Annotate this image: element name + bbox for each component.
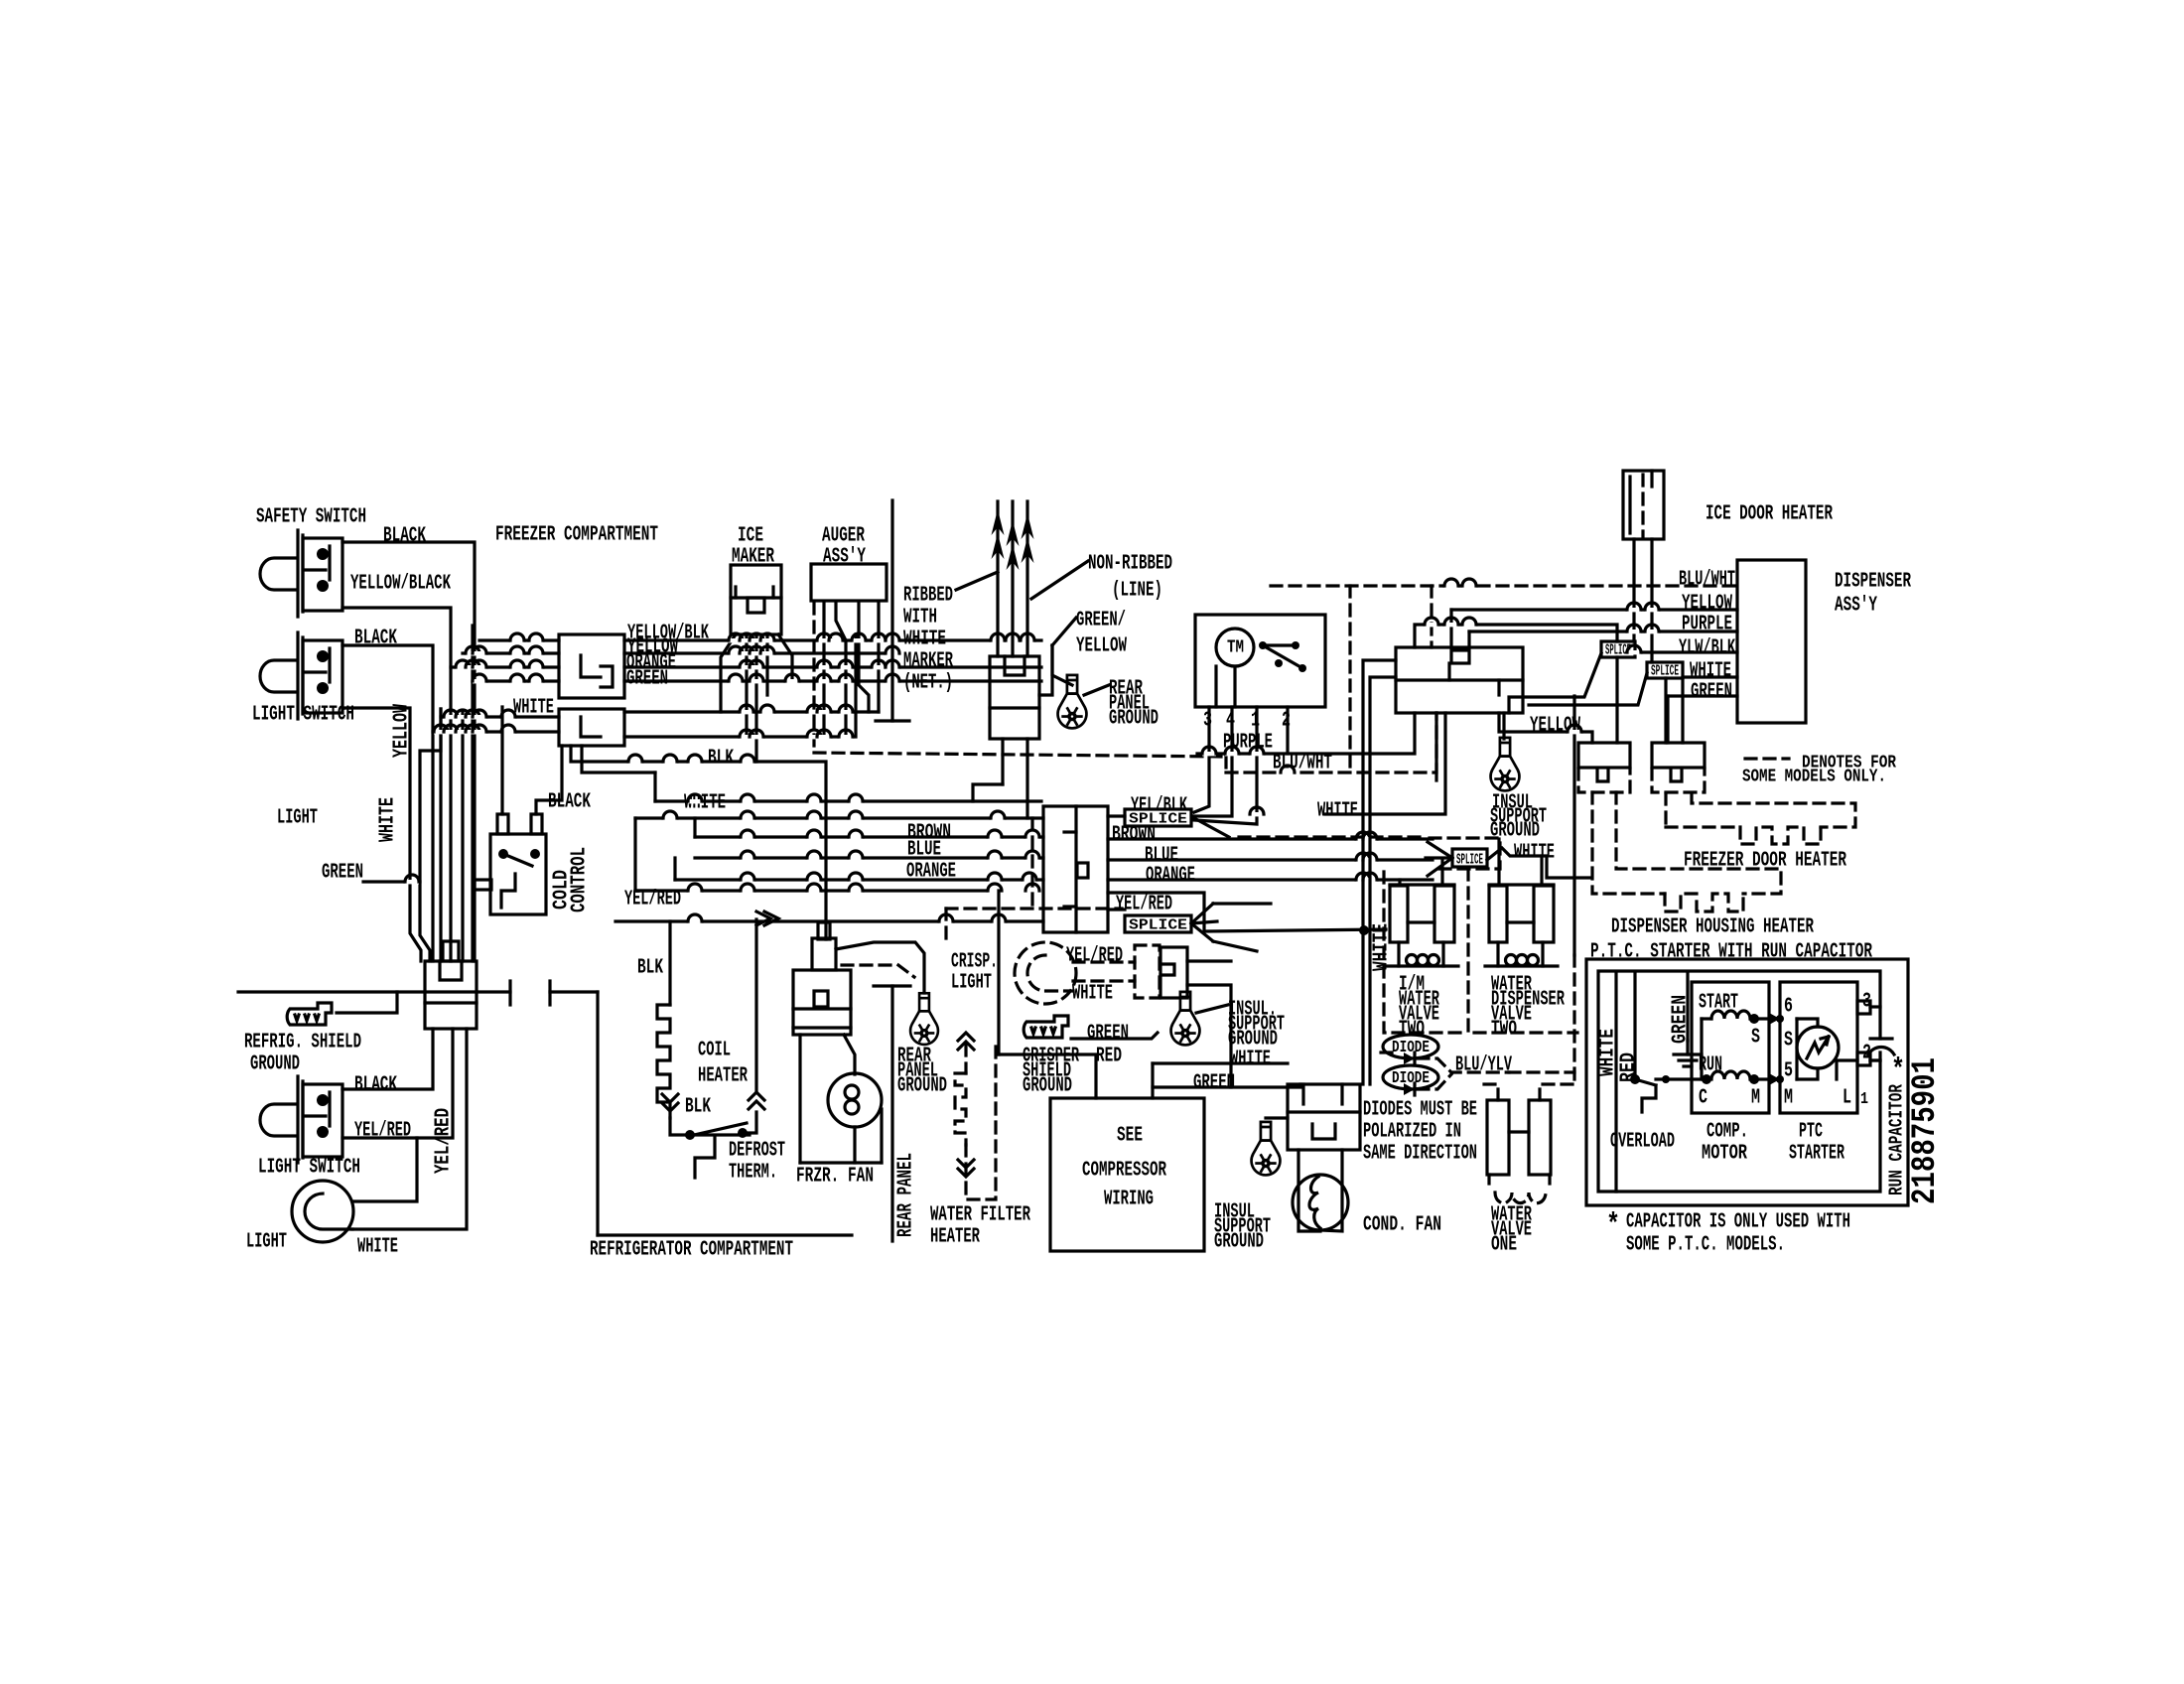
svg-text:BLACK: BLACK: [383, 525, 426, 548]
svg-text:GROUND: GROUND: [1214, 1231, 1264, 1254]
svg-text:WATER FILTER: WATER FILTER: [930, 1204, 1030, 1227]
svg-text:SAME DIRECTION: SAME DIRECTION: [1363, 1143, 1477, 1166]
ice maker connector: [731, 565, 781, 634]
svg-text:BLK: BLK: [708, 748, 734, 771]
svg-text:WHITE: WHITE: [1072, 983, 1113, 1006]
svg-text:GROUND: GROUND: [1023, 1075, 1072, 1098]
dashed bus: [1239, 835, 1426, 838]
crisper shield ground symbol: [1024, 1016, 1068, 1038]
svg-text:LIGHT SWITCH: LIGHT SWITCH: [258, 1157, 360, 1180]
timer wire: [1233, 666, 1236, 707]
insul support ground right: [1491, 738, 1520, 791]
svg-text:YEL/RED: YEL/RED: [1066, 945, 1123, 968]
svg-text:RUN CAPACITOR: RUN CAPACITOR: [1885, 1084, 1907, 1195]
S to ptc: [1754, 1017, 1780, 1020]
svg-text:BLK: BLK: [637, 957, 663, 980]
wire vertical: [471, 626, 474, 961]
svg-text:OVERLOAD: OVERLOAD: [1610, 1131, 1675, 1154]
diode out: [1418, 1058, 1509, 1072]
wire into connector: [473, 679, 559, 682]
svg-text:WITH: WITH: [903, 607, 937, 630]
svg-text:SAFETY SWITCH: SAFETY SWITCH: [256, 506, 366, 529]
arrow down: [662, 1094, 678, 1111]
wire up: [1467, 631, 1470, 647]
wire into splice 3: [1509, 653, 1601, 713]
frzr fan feed: [844, 1035, 855, 1074]
svg-text:MARKER: MARKER: [903, 650, 953, 673]
stub: [1108, 908, 1125, 911]
freezer door heater element: [1664, 793, 1667, 827]
wire black from light switch: [342, 645, 433, 961]
splice fan: [1191, 904, 1213, 923]
wire orange right: [1108, 878, 1433, 881]
cond fan wire: [1298, 1150, 1320, 1231]
auger wire: [822, 603, 825, 737]
svg-text:REFRIGERATOR COMPARTMENT: REFRIGERATOR COMPARTMENT: [590, 1239, 793, 1262]
svg-text:POLARIZED IN: POLARIZED IN: [1363, 1121, 1461, 1144]
frzr fan wire bottom: [853, 1127, 856, 1163]
wire into connector: [451, 665, 559, 668]
wire blk to coil heater: [668, 921, 671, 1005]
green/yellow wire: [1039, 645, 1052, 695]
wire yel/red long: [655, 889, 999, 892]
svg-text:1: 1: [1860, 1090, 1868, 1109]
dashed join: [1224, 757, 1227, 772]
svg-text:WIRING: WIRING: [1104, 1189, 1154, 1211]
freezer connector pair lower: [559, 709, 624, 746]
wire from light switch: [342, 708, 421, 961]
svg-text:TM: TM: [1227, 638, 1244, 658]
central multi-pin connector: [1043, 806, 1108, 932]
wire white to dispenser: [1683, 675, 1737, 678]
svg-text:LIGHT: LIGHT: [277, 807, 318, 830]
wire yel/blk stub: [1108, 814, 1125, 817]
svg-text:LIGHT: LIGHT: [246, 1231, 287, 1254]
frzr fan bottom bar: [800, 1161, 882, 1164]
auger assembly connector: [811, 564, 887, 601]
power supply lines: [996, 501, 999, 656]
svg-text:BLU/YLV: BLU/YLV: [1455, 1054, 1512, 1077]
svg-text:ICE: ICE: [738, 525, 763, 548]
splice 3: [1601, 641, 1635, 657]
svg-text:RIBBED: RIBBED: [903, 585, 953, 608]
wire to splice 3 top: [1415, 625, 1617, 647]
wire brown right: [1108, 837, 1433, 840]
ptc resistor: [1797, 1027, 1839, 1068]
lamp LIGHT: [292, 1181, 353, 1242]
timer pin 3 wire: [1194, 707, 1209, 812]
join: [635, 818, 655, 891]
wire green to dispenser: [1668, 694, 1737, 697]
wire vertical to I/M valve: [1398, 880, 1401, 885]
freezer door heater connector A: [1578, 743, 1630, 768]
svg-text:BLK: BLK: [685, 1096, 711, 1119]
cond fan wire: [1320, 1150, 1342, 1231]
wire: [1213, 902, 1271, 905]
M to ptc: [1754, 1077, 1780, 1080]
wire into lower connector: [433, 730, 559, 733]
ice door heater: [1623, 471, 1664, 539]
legend dashed sample: [1745, 757, 1789, 760]
svg-text:6: 6: [1784, 996, 1793, 1019]
svg-text:YELLOW: YELLOW: [1076, 635, 1127, 658]
wire blu/wht dashed: [1226, 713, 1436, 772]
svg-text:(NET.): (NET.): [903, 672, 953, 695]
wire ylw/blk to dispenser: [1635, 650, 1737, 653]
rear panel ground teardrop 2: [1058, 675, 1087, 729]
wire black to lower switch: [342, 1029, 433, 1089]
svg-text:(LINE): (LINE): [1112, 580, 1162, 603]
svg-text:STARTER: STARTER: [1789, 1143, 1844, 1166]
auger wire: [859, 603, 869, 712]
splice 5: [1452, 849, 1487, 867]
svg-text:COND. FAN: COND. FAN: [1363, 1214, 1441, 1237]
svg-text:GROUND: GROUND: [897, 1075, 947, 1098]
fan: [1428, 842, 1452, 858]
dashed auger wire some models: [812, 603, 815, 753]
svg-text:WHITE: WHITE: [1317, 800, 1358, 823]
svg-text:WHITE: WHITE: [357, 1236, 398, 1259]
diode 2: [1404, 1083, 1415, 1095]
dispenser assembly box: [1737, 560, 1806, 723]
svg-text:YEL/RED: YEL/RED: [1116, 894, 1172, 916]
timer pin 4 wire: [1194, 707, 1232, 816]
frzr fan connector: [793, 970, 851, 1035]
wire white from lamp: [352, 1029, 467, 1229]
svg-text:AUGER: AUGER: [822, 525, 865, 548]
wire to defrost therm: [670, 1118, 750, 1135]
splice: [1125, 809, 1191, 826]
wire white into lower connector: [441, 715, 559, 718]
svg-text:M: M: [1784, 1087, 1793, 1110]
svg-text:DIODE: DIODE: [1392, 1039, 1430, 1057]
svg-text:SPLICE: SPLICE: [1129, 917, 1187, 934]
cond fan coil: [1309, 1177, 1320, 1228]
wire yellow up: [420, 709, 441, 882]
red lead: [1633, 973, 1636, 1075]
water filter heater dashed resistor: [964, 1045, 967, 1073]
dashed enclosure valve two: [1468, 869, 1577, 1033]
ice maker wire: [778, 634, 792, 681]
svg-text:*: *: [1606, 1208, 1620, 1242]
defrost timer box TM: [1195, 615, 1325, 707]
join: [673, 858, 676, 880]
start winding coil: [1711, 1011, 1750, 1019]
rear panel line: [890, 986, 893, 1241]
svg-text:S: S: [1784, 1030, 1793, 1052]
rear panel ground teardrop: [910, 993, 938, 1045]
wire purple: [1197, 713, 1415, 754]
svg-text:SOME MODELS ONLY.: SOME MODELS ONLY.: [1742, 768, 1886, 787]
svg-text:WHITE: WHITE: [1230, 1049, 1271, 1071]
cold control: [490, 834, 546, 914]
wire yellow to dispenser: [1451, 608, 1737, 611]
svg-text:YELLOW: YELLOW: [391, 704, 414, 758]
divider tick: [874, 984, 910, 987]
ice maker wire: [754, 634, 757, 762]
wire vertical to connector: [439, 709, 442, 961]
wire join: [693, 818, 696, 837]
svg-text:M: M: [1751, 1087, 1760, 1110]
ground symbol green: [1674, 1041, 1702, 1066]
wire defrost right: [743, 1112, 756, 1133]
water valve one coil: [1495, 1193, 1546, 1203]
svg-text:DISPENSER: DISPENSER: [1835, 571, 1911, 594]
wire white vertical: [461, 712, 464, 961]
wire white: [1153, 1061, 1288, 1064]
pointer non-ribbed: [1031, 561, 1088, 599]
wire orange bus: [624, 665, 1041, 668]
I/M water valve two: [1390, 883, 1454, 886]
svg-text:LIGHT: LIGHT: [951, 972, 992, 995]
dashed vertical right: [1572, 955, 1575, 1084]
wire: [1187, 985, 1231, 1014]
wire vertical: [1540, 856, 1543, 885]
start-run common: [1700, 1019, 1703, 1079]
wire vertical: [1370, 677, 1396, 1084]
wire yellow/black from safety switch: [342, 608, 451, 961]
wire red: [999, 1054, 1096, 1098]
frzr fan wire right: [880, 1109, 883, 1163]
stub: [635, 889, 655, 892]
dispenser harness connector: [1396, 647, 1523, 713]
svg-text:GREEN: GREEN: [626, 668, 668, 691]
svg-text:THERM.: THERM.: [729, 1162, 777, 1185]
splice 2: [1125, 915, 1191, 932]
svg-text:TWO: TWO: [1491, 1019, 1517, 1042]
wire blk to frzr fan: [571, 746, 826, 939]
refrig shield ground symbol: [287, 1003, 332, 1025]
dashed white: [1073, 979, 1135, 982]
svg-text:DEFROST: DEFROST: [729, 1140, 785, 1163]
green/yellow wire: [1052, 645, 1072, 685]
wire white long lower: [615, 919, 1043, 922]
dashed vertical: [1430, 586, 1433, 647]
wire green bus: [624, 679, 1041, 682]
ice maker wire: [721, 634, 736, 712]
svg-text:CONTROL: CONTROL: [569, 847, 592, 912]
white wire right: [1487, 848, 1591, 878]
svg-text:RED: RED: [1096, 1046, 1122, 1068]
svg-text:ASS'Y: ASS'Y: [1835, 595, 1877, 618]
cold control wire up right: [536, 746, 562, 814]
svg-text:ONE: ONE: [1491, 1234, 1517, 1257]
svg-text:NON-RIBBED: NON-RIBBED: [1088, 553, 1172, 576]
diode lead: [1381, 1051, 1392, 1053]
svg-text:WHITE: WHITE: [1690, 660, 1731, 683]
timer pin 2 wire: [1286, 707, 1289, 754]
wire right: [1108, 893, 1386, 931]
yellow wire to connector A: [1499, 713, 1592, 743]
svg-text:SOME P.T.C. MODELS.: SOME P.T.C. MODELS.: [1626, 1234, 1785, 1257]
splice fan: [1191, 921, 1217, 923]
connector lower-left: [425, 961, 477, 1029]
auger wire: [836, 603, 846, 737]
svg-text:C: C: [1699, 1087, 1707, 1110]
svg-text:COIL: COIL: [698, 1040, 731, 1062]
pointer: [1084, 685, 1109, 695]
refrigerator compartment bottom boundary: [598, 1233, 852, 1236]
svg-text:DIODE: DIODE: [1392, 1069, 1430, 1088]
wire red vertical: [997, 891, 1000, 1054]
wire yel/red to lower switch: [342, 1029, 453, 1138]
PTC starter outer box: [1586, 959, 1908, 1205]
splice 4: [1647, 662, 1683, 678]
wire vertical: [1440, 860, 1443, 885]
wire below connector: [1001, 739, 1004, 784]
wire vertical: [1497, 839, 1500, 885]
wire to comp motor C: [1656, 1077, 1702, 1080]
wire blu/wht dashed to dispenser: [1271, 584, 1737, 587]
splice fan extra: [1194, 818, 1229, 837]
splice fan: [1191, 923, 1213, 941]
svg-text:*: *: [1891, 1053, 1905, 1087]
vertical right solid: [1572, 696, 1575, 955]
light switch lower: [260, 1076, 342, 1163]
svg-text:DIODES MUST BE: DIODES MUST BE: [1363, 1099, 1477, 1122]
svg-text:REAR PANEL: REAR PANEL: [895, 1153, 918, 1237]
pointer ribbed: [956, 572, 998, 590]
arrow up: [749, 1092, 764, 1109]
blu/ylv dashed: [1509, 1070, 1574, 1073]
green/yellow ground: [890, 500, 893, 721]
cold control blade: [503, 854, 532, 866]
wire green vert: [1229, 1014, 1232, 1087]
wire green: [1153, 1084, 1300, 1087]
ice door heater lead: [1650, 539, 1653, 662]
svg-text:GROUND: GROUND: [1109, 708, 1159, 731]
dispenser housing heater element: [1592, 792, 1665, 894]
light switch upper: [260, 632, 342, 719]
insul support ground: [1171, 992, 1200, 1046]
svg-text:REFRIG. SHIELD: REFRIG. SHIELD: [244, 1032, 361, 1054]
crisp light connector: [1135, 945, 1160, 998]
frzr fan lamp: [828, 1073, 882, 1127]
wire: [1151, 1063, 1154, 1098]
svg-text:L: L: [1843, 1087, 1851, 1110]
svg-text:S: S: [1751, 1027, 1760, 1050]
pin wire: [1434, 713, 1437, 780]
ice door heater lead: [1632, 539, 1635, 641]
timer wire: [1214, 666, 1217, 707]
svg-text:BLACK: BLACK: [548, 791, 591, 814]
timer pin 1 wire: [1194, 707, 1257, 824]
svg-text:BLU/WHT: BLU/WHT: [1679, 569, 1735, 592]
pointer: [1196, 1005, 1228, 1013]
dashed enclosure around splice: [1430, 838, 1500, 869]
cond fan connector: [1288, 1084, 1360, 1150]
wire green: [363, 882, 430, 961]
dashed join vertical: [1348, 586, 1351, 772]
svg-text:MOTOR: MOTOR: [1702, 1143, 1747, 1166]
dashed enclosure left: [1384, 872, 1468, 1033]
freezer connector pair upper: [559, 634, 624, 698]
diode out: [1418, 1074, 1451, 1089]
splice fan extra: [1213, 941, 1257, 951]
coil heater zigzag: [657, 1005, 670, 1118]
ice maker wire: [745, 634, 748, 737]
wire splice to connector A: [1615, 657, 1618, 743]
dashed drop to crisp light: [944, 909, 947, 942]
svg-text:WHITE: WHITE: [377, 797, 400, 842]
wire: [973, 784, 1003, 801]
water dispenser valve two: [1489, 883, 1554, 886]
frzr fan wire left: [798, 1035, 801, 1163]
refrigerator compartment boundary left: [238, 990, 510, 993]
wire: [653, 772, 656, 801]
freezer door heater connector B: [1652, 743, 1705, 768]
wire white right: [1325, 713, 1445, 814]
see compressor wiring box: [1050, 1098, 1204, 1251]
wire purple to dispenser: [1469, 630, 1737, 632]
svg-text:CRISP.: CRISP.: [951, 951, 998, 974]
svg-text:COMPRESSOR: COMPRESSOR: [1082, 1160, 1166, 1183]
svg-text:FRZR. FAN: FRZR. FAN: [796, 1166, 874, 1189]
compressor motor box: [1692, 982, 1769, 1113]
svg-text:SEE: SEE: [1117, 1125, 1143, 1148]
wire into connector: [463, 651, 559, 654]
wire white long: [655, 799, 1041, 802]
safety switch: [260, 530, 342, 617]
teardrop stem wire: [1502, 713, 1505, 739]
svg-text:WHITE: WHITE: [903, 629, 946, 651]
wire up: [1449, 610, 1452, 647]
run capacitor: [1870, 1005, 1880, 1008]
wire orange long: [675, 878, 1043, 881]
svg-text:PURPLE: PURPLE: [1223, 732, 1273, 755]
wire white bus: [624, 710, 879, 713]
pin2 to frame: [1870, 1058, 1880, 1061]
green lead: [1686, 973, 1689, 1041]
svg-text:GREEN/: GREEN/: [1076, 610, 1126, 632]
cond fan lamp: [1293, 1175, 1348, 1230]
cold control wire up: [500, 707, 503, 814]
diode 1: [1404, 1052, 1415, 1064]
arrow on wire: [756, 912, 778, 925]
wire brown long: [695, 835, 1043, 838]
svg-text:218875901: 218875901: [1907, 1057, 1945, 1204]
wire: [1187, 959, 1231, 962]
dashed yel/red: [1073, 960, 1135, 963]
refrigerator compartment left boundary: [596, 992, 599, 1235]
overload protector: [1635, 1079, 1656, 1112]
break mark: [548, 981, 551, 1005]
svg-text:GREEN: GREEN: [322, 862, 363, 885]
dashed row some models: [814, 753, 1226, 757]
wire to connector B: [1681, 678, 1684, 743]
dashed vertical some models: [1030, 818, 1033, 909]
svg-text:YELLOW: YELLOW: [1682, 593, 1732, 616]
frzr fan green wire: [836, 942, 924, 993]
stub: [1266, 1116, 1288, 1119]
pointer green/yellow: [1052, 618, 1076, 645]
svg-text:CAPACITOR IS ONLY USED WITH: CAPACITOR IS ONLY USED WITH: [1626, 1211, 1850, 1234]
wire vertical to cond connector: [1363, 660, 1396, 1084]
water valve one: [1487, 1100, 1509, 1175]
green riser: [1666, 696, 1669, 743]
svg-text:DISPENSER HOUSING HEATER: DISPENSER HOUSING HEATER: [1611, 916, 1814, 939]
svg-text:YLW/BLK: YLW/BLK: [1679, 637, 1735, 660]
wire blue long: [695, 856, 1043, 859]
svg-text:COMP.: COMP.: [1706, 1121, 1748, 1144]
svg-text:5: 5: [1784, 1060, 1793, 1083]
line cord connector: [990, 656, 1039, 739]
svg-text:HEATER: HEATER: [930, 1226, 980, 1249]
wire: [582, 746, 655, 772]
run winding coil: [1711, 1071, 1750, 1079]
crisp light dashed lamp: [1015, 942, 1076, 1004]
svg-text:BROWN: BROWN: [1112, 824, 1156, 847]
